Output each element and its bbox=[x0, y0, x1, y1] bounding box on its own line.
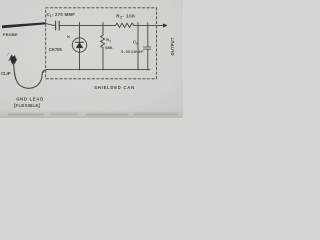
svg-text:68K: 68K bbox=[105, 45, 112, 50]
label R2 - 10K bbox=[116, 14, 136, 20]
output arrow bbox=[163, 24, 167, 27]
label 0.001MMF bbox=[121, 50, 144, 54]
label PROBE bbox=[3, 32, 18, 37]
label R1 bbox=[106, 37, 111, 43]
wire diode branch bbox=[79, 25, 81, 70]
node junction diode branch / top wire bbox=[79, 23, 81, 26]
diode CR1 CK705 bbox=[72, 38, 86, 53]
wire top bus C1 to output arrow bbox=[59, 24, 115, 26]
svg-text:OUTPUT: OUTPUT bbox=[170, 37, 175, 55]
label CLIP bbox=[1, 71, 11, 76]
wire bypass branch bbox=[137, 25, 139, 70]
label K (cathode) bbox=[67, 34, 70, 39]
node junction R1 branch / top wire bbox=[102, 23, 104, 26]
label CK705 bbox=[49, 47, 63, 52]
shielded can (dashed enclosure) bbox=[46, 8, 157, 79]
label C2 bbox=[133, 40, 138, 46]
label [FLEXIBLE] bbox=[14, 103, 41, 108]
resistor R1 (vertical) bbox=[101, 25, 105, 70]
label SHIELDED CAN bbox=[94, 85, 135, 90]
svg-text:PROBE: PROBE bbox=[3, 32, 18, 37]
node junction C2 branch / top wire bbox=[147, 23, 149, 26]
clip (alligator clip) bbox=[7, 53, 17, 65]
wire probe lead to C1 bbox=[46, 23, 56, 25]
svg-text:R1: R1 bbox=[106, 37, 111, 43]
wire probe lead (thick tapered) bbox=[2, 22, 46, 28]
svg-text:SHIELDED CAN: SHIELDED CAN bbox=[94, 85, 135, 90]
svg-text:GND LEAD: GND LEAD bbox=[16, 97, 44, 102]
svg-text:K: K bbox=[67, 34, 70, 39]
wire C2 branch bbox=[147, 25, 149, 70]
wire ground bus (bottom) bbox=[44, 70, 150, 73]
resistor R2 (horizontal, top bus) bbox=[116, 23, 136, 27]
capacitor C1 bbox=[56, 21, 60, 30]
node junction bypass branch / top wire bbox=[137, 23, 139, 26]
svg-text:R2- 10K: R2- 10K bbox=[116, 14, 136, 20]
label OUTPUT bbox=[170, 37, 175, 55]
label C1 - 270 MMF bbox=[47, 12, 76, 18]
svg-text:CK705: CK705 bbox=[49, 47, 63, 52]
label 68K bbox=[105, 45, 112, 50]
wire flexible ground lead bbox=[13, 63, 44, 89]
svg-text:C1- 270 MMF: C1- 270 MMF bbox=[47, 12, 76, 18]
label GND LEAD bbox=[16, 97, 44, 102]
svg-text:C2: C2 bbox=[133, 40, 138, 46]
capacitor C2 bbox=[143, 47, 151, 49]
svg-text:[FLEXIBLE]: [FLEXIBLE] bbox=[14, 103, 41, 108]
svg-text:0.001MMF: 0.001MMF bbox=[121, 50, 144, 54]
svg-text:CLIP: CLIP bbox=[1, 71, 11, 76]
